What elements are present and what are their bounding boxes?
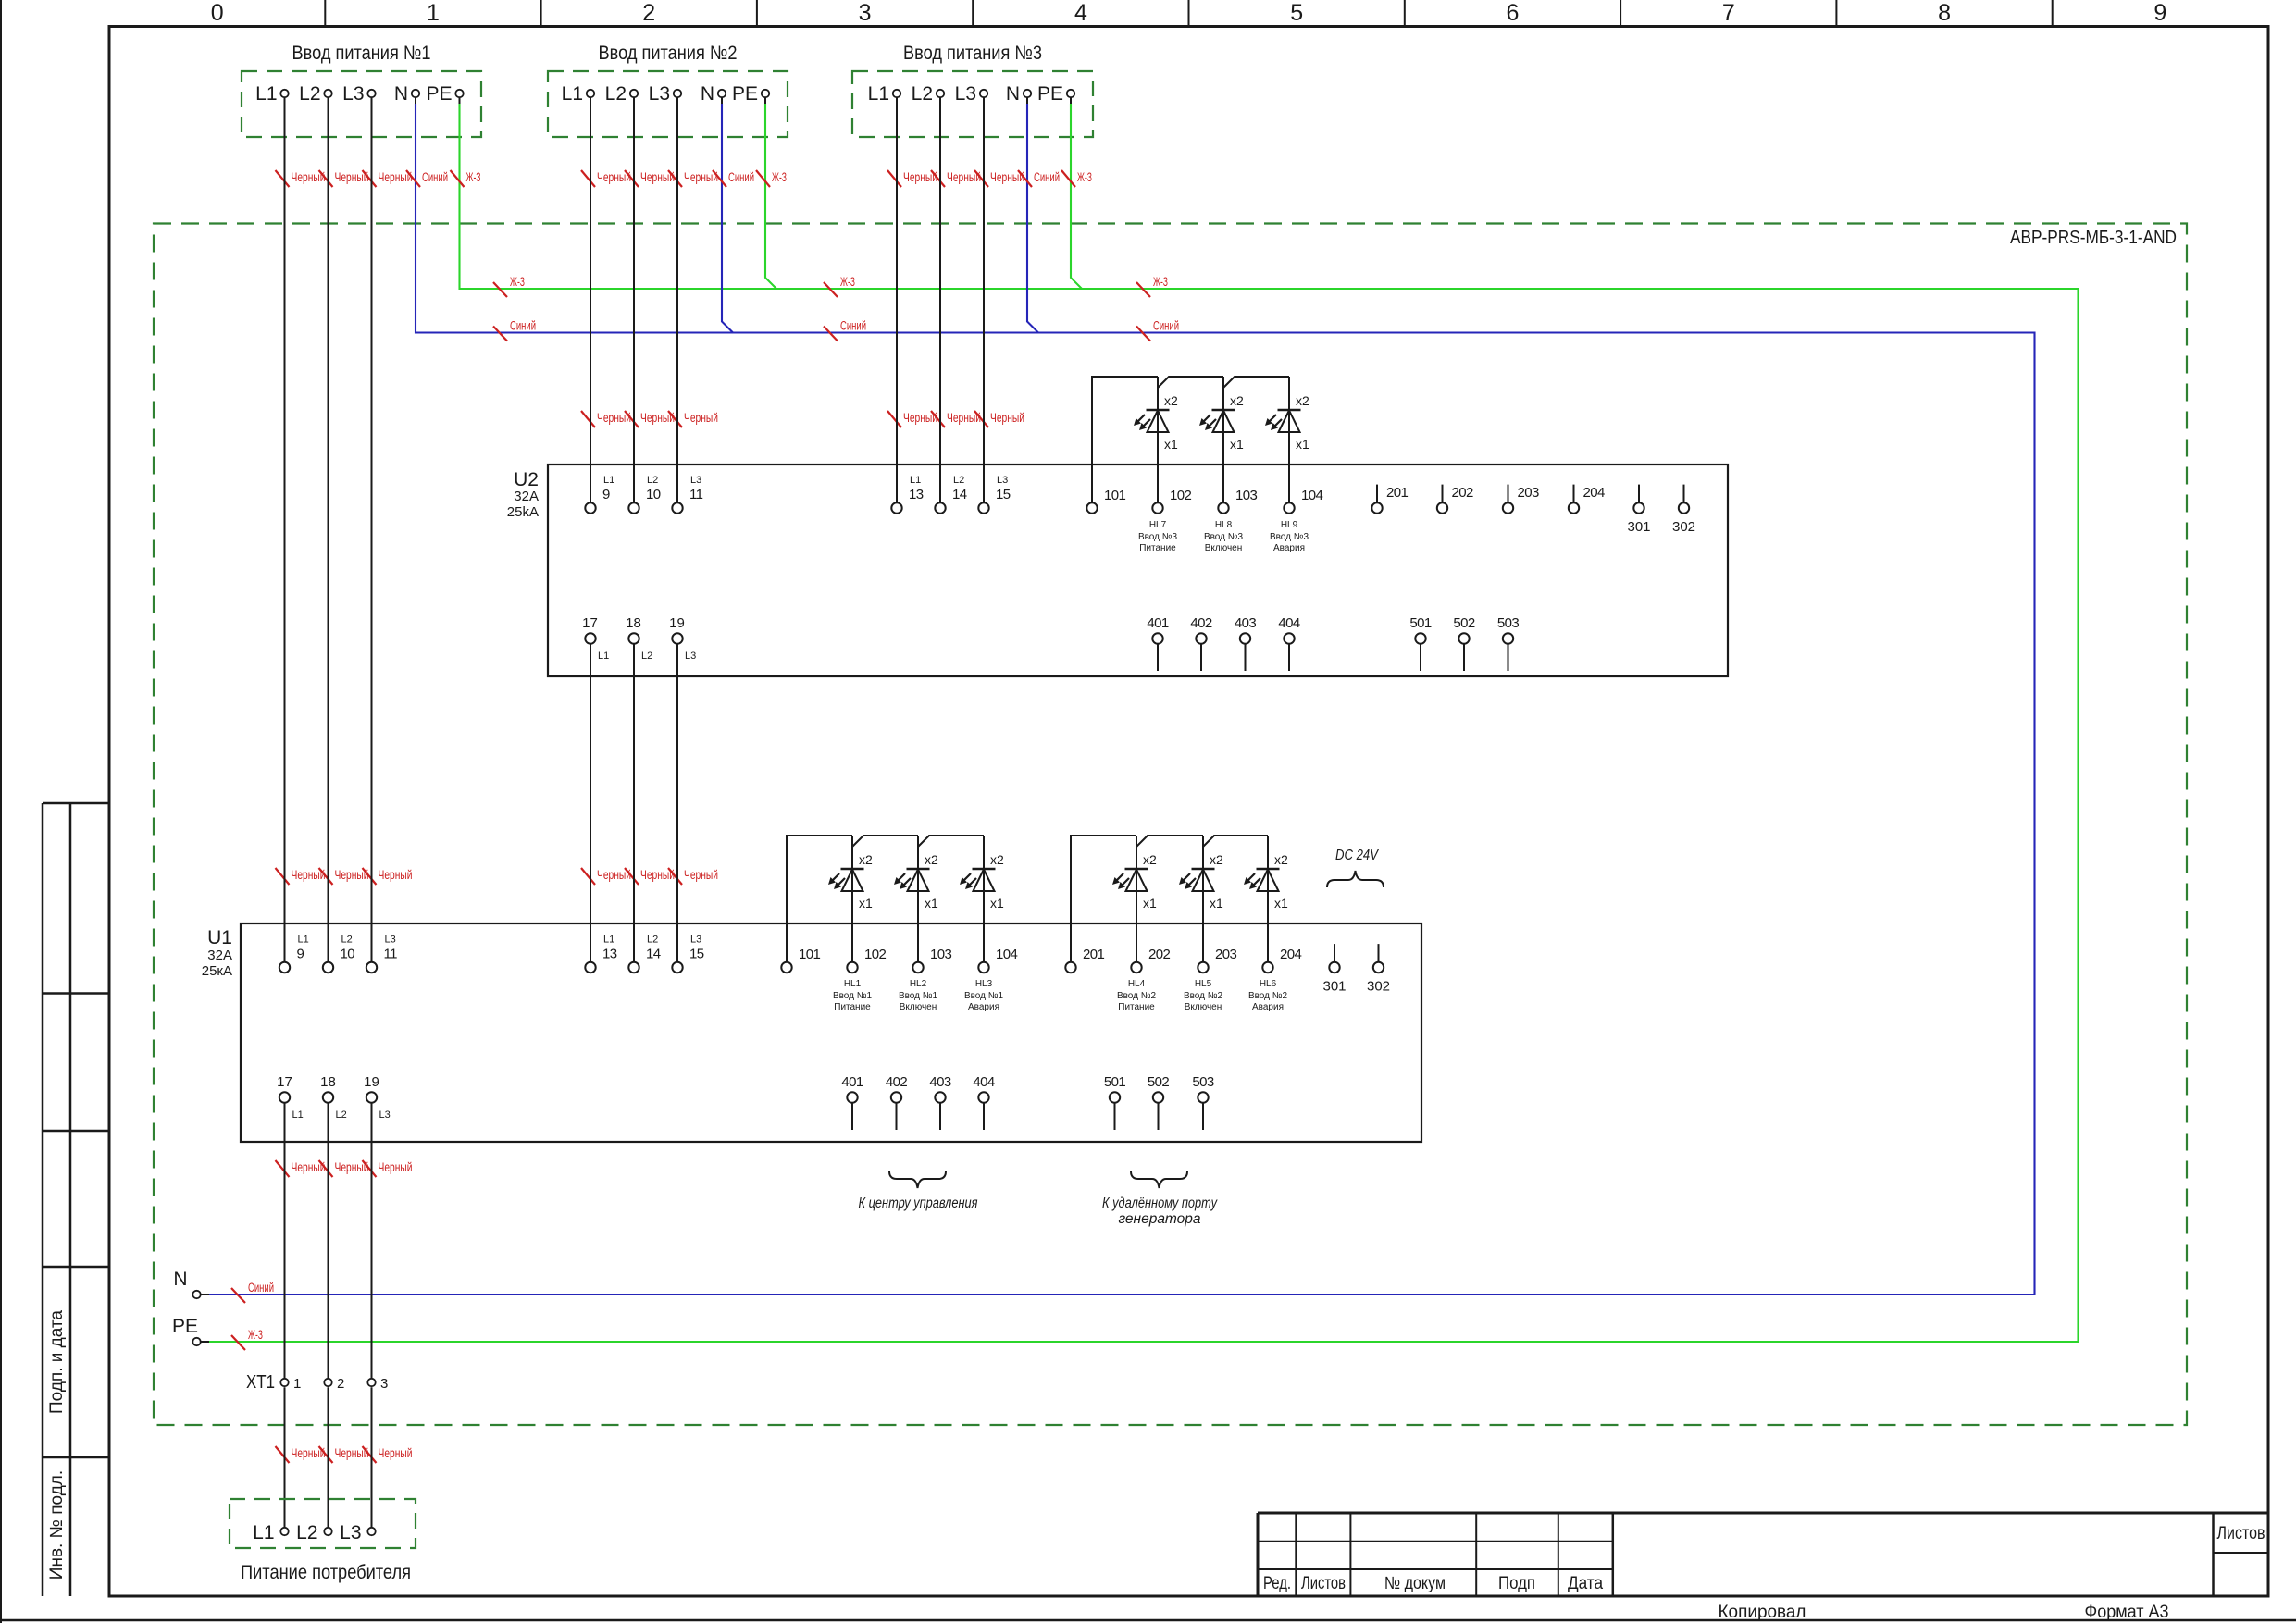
svg-text:9: 9 [602,487,610,502]
svg-text:14: 14 [952,487,967,502]
svg-text:302: 302 [1367,979,1390,995]
svg-text:L3: L3 [690,475,701,486]
brace К удалённому порту [1131,1171,1187,1188]
left margin table [42,803,44,1596]
U2 LED feed riser from terminal 101 [1092,377,1158,502]
svg-text:Синий: Синий [510,319,536,333]
svg-text:Питание: Питание [1118,1002,1155,1012]
svg-text:Ж-З: Ж-З [466,170,481,184]
svg-text:x2: x2 [1296,393,1309,408]
svg-text:13: 13 [602,947,617,962]
svg-text:x1: x1 [1296,437,1309,452]
svg-text:x2: x2 [990,852,1004,867]
LED HL6 [1267,836,1269,962]
svg-text:Подп: Подп [1498,1574,1535,1593]
wire L2 input3 to U2:14 [939,97,941,502]
wire colour labels below U1 [276,1160,290,1177]
svg-text:3: 3 [859,0,872,26]
svg-text:9: 9 [2153,0,2166,26]
svg-text:Ввод №2: Ввод №2 [1248,991,1288,1001]
svg-text:Питание: Питание [1139,543,1176,553]
svg-text:17: 17 [582,615,598,631]
svg-text:N: N [1006,83,1020,105]
svg-text:103: 103 [1235,488,1257,503]
wire L1 input2 to U2:9 [590,97,591,502]
svg-text:L1: L1 [910,475,921,486]
svg-text:x1: x1 [1143,896,1157,911]
U1 LED chain jog 102-103 [852,836,918,847]
ruler column ticks [324,0,326,27]
svg-text:25kA: 25kA [507,504,539,520]
svg-text:103: 103 [930,947,951,962]
PE wire jog from input 3 [1071,104,1082,289]
svg-text:x1: x1 [1210,896,1223,911]
svg-text:Ввод №1: Ввод №1 [833,991,873,1001]
svg-text:1: 1 [293,1376,301,1392]
svg-text:3: 3 [380,1376,388,1392]
wire L3 input3 to U2:15 [983,97,985,502]
svg-text:Ж-З: Ж-З [510,275,525,289]
svg-text:0: 0 [211,0,224,26]
svg-text:9: 9 [297,947,304,962]
svg-text:Ж-З: Ж-З [248,1328,263,1342]
svg-text:401: 401 [841,1074,863,1090]
LED HL7 [1157,377,1159,502]
svg-text:302: 302 [1672,519,1695,535]
svg-text:Питание: Питание [834,1002,871,1012]
svg-text:Авария: Авария [1273,543,1305,553]
svg-text:Ввод питания №2: Ввод питания №2 [599,43,738,64]
svg-text:x2: x2 [1164,393,1178,408]
svg-text:L1: L1 [562,83,583,105]
consumer box Питание потребителя [230,1499,416,1548]
svg-text:503: 503 [1497,615,1519,631]
svg-text:Ввод №1: Ввод №1 [964,991,1004,1001]
svg-text:L3: L3 [385,935,396,946]
svg-text:HL6: HL6 [1260,979,1277,989]
svg-text:18: 18 [320,1074,336,1090]
svg-text:ХТ1: ХТ1 [246,1372,275,1393]
svg-text:201: 201 [1386,485,1408,501]
svg-text:Инв. № подл.: Инв. № подл. [47,1470,67,1580]
svg-text:Авария: Авария [1252,1002,1284,1012]
svg-text:403: 403 [929,1074,950,1090]
svg-text:501: 501 [1104,1074,1125,1090]
svg-text:102: 102 [864,947,886,962]
svg-text:PE: PE [1037,83,1063,105]
svg-text:203: 203 [1215,947,1236,962]
svg-text:Ред.: Ред. [1263,1574,1291,1593]
LED HL9 [1288,377,1290,502]
svg-text:HL2: HL2 [910,979,927,989]
svg-text:L3: L3 [342,83,364,105]
wire XT1:1 to consumer L1 [284,1387,286,1528]
svg-text:L2: L2 [641,650,652,662]
svg-text:301: 301 [1322,979,1346,995]
svg-text:L2: L2 [299,83,320,105]
svg-text:Ввод №3: Ввод №3 [1204,532,1244,542]
svg-text:Черный: Черный [379,1160,413,1174]
svg-text:L3: L3 [997,475,1008,486]
svg-text:19: 19 [364,1074,379,1090]
svg-text:L2: L2 [647,475,658,486]
N net (blue) from inputs to N terminal [209,104,2035,1295]
svg-text:Листов: Листов [2217,1524,2265,1543]
brace К центру управления [889,1171,946,1188]
svg-text:N: N [394,83,408,105]
svg-text:17: 17 [277,1074,292,1090]
LED HL4 [1136,836,1137,962]
XT1 terminal 1 [280,1379,288,1386]
input box Ввод питания №2 [548,71,788,137]
wire L3 input2 to U2:11 [676,97,678,502]
LED HL8 [1222,377,1224,502]
XT1 terminal 3 [367,1379,375,1386]
LED HL1 [851,836,853,962]
Ж-З label at PE terminal [231,1335,245,1350]
LED HL3 [983,836,985,962]
svg-text:Ввод №2: Ввод №2 [1117,991,1157,1001]
svg-text:501: 501 [1409,615,1431,631]
svg-text:x2: x2 [925,852,938,867]
svg-text:x1: x1 [859,896,873,911]
wire colour labels above U1 [276,868,290,885]
svg-text:Ж-З: Ж-З [840,275,855,289]
svg-text:10: 10 [646,487,661,502]
svg-text:L2: L2 [296,1522,317,1543]
svg-text:502: 502 [1148,1074,1169,1090]
svg-text:403: 403 [1235,615,1256,631]
svg-text:Черный: Черный [379,1446,413,1460]
svg-text:18: 18 [626,615,641,631]
U2 terminal 202 [1442,485,1444,503]
U2 terminal 201 [1376,485,1378,503]
Синий label at N terminal [231,1288,245,1303]
svg-text:Синий: Синий [1153,319,1179,333]
page outer border bottom [0,1619,2296,1622]
svg-text:L3: L3 [379,1109,391,1121]
wire L2 input2 to U2:10 [633,97,635,502]
svg-text:404: 404 [1278,615,1299,631]
U2 terminal 204 [1573,485,1575,503]
svg-text:Формат А3: Формат А3 [2085,1603,2169,1622]
svg-text:L2: L2 [912,83,933,105]
LED HL5 [1202,836,1204,962]
svg-text:Ввод питания №3: Ввод питания №3 [903,43,1042,64]
PE wire jog from input 2 [765,104,776,289]
svg-text:N: N [701,83,714,105]
svg-text:Копировал: Копировал [1719,1603,1806,1622]
svg-text:HL8: HL8 [1215,520,1233,530]
wire XT1:3 to consumer L3 [371,1387,373,1528]
svg-text:101: 101 [799,947,820,962]
svg-text:PE: PE [732,83,758,105]
svg-text:x2: x2 [859,852,873,867]
svg-text:Включен: Включен [1205,543,1243,553]
svg-text:25кА: 25кА [202,963,232,979]
svg-text:201: 201 [1083,947,1104,962]
U1 terminal 302 [1378,944,1380,962]
surge protection device U1 box [241,923,1421,1142]
svg-text:Синий: Синий [728,170,754,184]
LED HL2 [917,836,919,962]
svg-text:x2: x2 [1230,393,1244,408]
svg-text:К центру управления: К центру управления [859,1196,978,1211]
svg-text:L1: L1 [292,1109,304,1121]
svg-text:2: 2 [642,0,655,26]
svg-text:8: 8 [1938,0,1951,26]
input box Ввод питания №3 [852,71,1093,137]
svg-text:L3: L3 [340,1522,361,1543]
svg-text:15: 15 [689,947,704,962]
svg-text:x2: x2 [1210,852,1223,867]
wire L3 input1 to U1:11 [371,97,373,962]
svg-text:PE: PE [172,1316,198,1337]
enclosure АВР-PRS-МБ-3-1-AND dashed box [154,224,2187,1426]
wire XT1:2 to consumer L2 [328,1387,329,1528]
svg-text:301: 301 [1627,519,1650,535]
Синий labels on N run [493,327,507,341]
svg-text:401: 401 [1147,615,1168,631]
svg-text:Синий: Синий [840,319,866,333]
U1 LED feed riser from terminal 101 [787,836,852,962]
svg-text:L2: L2 [336,1109,347,1121]
svg-text:503: 503 [1192,1074,1213,1090]
svg-text:x1: x1 [1230,437,1244,452]
svg-text:Черный: Черный [684,868,718,882]
svg-text:Включен: Включен [900,1002,937,1012]
svg-text:HL3: HL3 [975,979,993,989]
wire colour labels above U2 [581,411,595,427]
svg-text:11: 11 [384,947,398,962]
svg-text:Ввод №1: Ввод №1 [899,991,938,1001]
U1 terminal 301 [1334,944,1335,962]
svg-text:HL9: HL9 [1281,520,1298,530]
wire L1 input3 to U2:13 [896,97,898,502]
svg-text:x1: x1 [1274,896,1288,911]
svg-text:АВР-PRS-МБ-3-1-AND: АВР-PRS-МБ-3-1-AND [2010,228,2177,248]
svg-text:L2: L2 [605,83,627,105]
svg-text:HL1: HL1 [844,979,862,989]
U1 LED chain jog 203-204 [1203,836,1268,847]
svg-text:N: N [173,1269,187,1290]
svg-text:L1: L1 [253,1522,274,1543]
wire U2:17 to U1:13 [590,644,591,962]
svg-text:L1: L1 [603,475,614,486]
svg-text:L1: L1 [598,650,609,662]
svg-text:L1: L1 [603,935,614,946]
svg-text:Включен: Включен [1185,1002,1222,1012]
XT1 terminal 2 [324,1379,331,1386]
svg-text:x1: x1 [1164,437,1178,452]
svg-text:203: 203 [1518,485,1539,501]
svg-text:HL5: HL5 [1195,979,1212,989]
U2 terminal 203 [1508,485,1509,503]
svg-text:101: 101 [1104,488,1125,503]
svg-text:L2: L2 [341,935,353,946]
N wire jog from input 2 [722,104,733,333]
svg-text:204: 204 [1583,485,1605,501]
svg-text:1: 1 [427,0,440,26]
wire L1 input1 to U1:9 [284,97,286,962]
svg-text:№ докум: № докум [1384,1574,1446,1593]
U2 terminal 302 [1683,485,1685,503]
N wire jog from input 3 [1027,104,1038,333]
svg-text:402: 402 [1190,615,1211,631]
svg-text:L1: L1 [298,935,309,946]
svg-text:DC 24V: DC 24V [1335,848,1379,863]
wire U2:18 to U1:14 [633,644,635,962]
svg-text:4: 4 [1074,0,1087,26]
DC 24V brace [1327,871,1384,887]
U1 LED chain jog 202-203 [1136,836,1203,847]
svg-text:202: 202 [1148,947,1170,962]
svg-text:Авария: Авария [968,1002,999,1012]
wire U1:17 to XT1:1 [284,1103,286,1379]
svg-text:Черный: Черный [684,411,718,425]
svg-text:Ж-З: Ж-З [1153,275,1168,289]
svg-text:L3: L3 [690,935,701,946]
svg-text:Ввод питания №1: Ввод питания №1 [292,43,431,64]
svg-text:Листов: Листов [1301,1574,1346,1593]
svg-text:14: 14 [646,947,661,962]
svg-text:L2: L2 [647,935,658,946]
title block [1258,1512,2268,1515]
PE net (green) from inputs to PE terminal [209,104,2079,1342]
svg-text:202: 202 [1452,485,1473,501]
svg-text:204: 204 [1280,947,1301,962]
svg-text:L3: L3 [955,83,976,105]
svg-text:502: 502 [1453,615,1474,631]
svg-text:5: 5 [1290,0,1303,26]
svg-text:x2: x2 [1274,852,1288,867]
svg-text:HL4: HL4 [1128,979,1146,989]
svg-text:104: 104 [996,947,1017,962]
U2 terminal 301 [1638,485,1640,503]
page outer border left [0,0,2,1623]
U1 LED chain jog 103-104 [918,836,984,847]
svg-text:32A: 32A [207,948,232,963]
svg-text:Черный: Черный [990,411,1024,425]
svg-text:L2: L2 [953,475,964,486]
svg-text:Питание потребителя: Питание потребителя [241,1562,411,1583]
svg-text:U2: U2 [514,469,539,490]
svg-text:102: 102 [1170,488,1191,503]
svg-text:402: 402 [886,1074,907,1090]
U2 LED chain jog 103-104 [1223,377,1289,388]
svg-text:6: 6 [1507,0,1520,26]
svg-text:13: 13 [909,487,924,502]
svg-text:32A: 32A [514,489,539,504]
svg-text:x1: x1 [990,896,1004,911]
input box Ввод питания №1 [242,71,481,137]
svg-text:L3: L3 [649,83,670,105]
svg-text:Дата: Дата [1568,1574,1603,1593]
svg-text:10: 10 [341,947,355,962]
wire U1:19 to XT1:3 [371,1103,373,1379]
svg-text:Черный: Черный [379,868,413,882]
svg-text:19: 19 [669,615,685,631]
svg-text:Ж-З: Ж-З [772,170,787,184]
svg-text:7: 7 [1722,0,1735,26]
wire colour labels below XT1 [276,1446,290,1463]
svg-text:104: 104 [1301,488,1322,503]
svg-text:Синий: Синий [422,170,448,184]
svg-text:2: 2 [337,1376,344,1392]
wire U1:18 to XT1:2 [328,1103,329,1379]
wire U2:19 to U1:15 [676,644,678,962]
svg-text:генератора: генератора [1118,1211,1200,1227]
surge protection device U2 box [548,465,1728,676]
U1 LED feed riser from terminal 201 [1071,836,1136,962]
svg-text:Синий: Синий [248,1281,274,1295]
svg-text:L1: L1 [255,83,277,105]
svg-text:Синий: Синий [1034,170,1060,184]
svg-text:PE: PE [426,83,452,105]
svg-text:L3: L3 [685,650,696,662]
svg-text:Ж-З: Ж-З [1077,170,1092,184]
svg-text:U1: U1 [207,927,232,948]
svg-text:11: 11 [689,487,703,502]
svg-text:Ввод №2: Ввод №2 [1184,991,1223,1001]
svg-text:К удалённому порту: К удалённому порту [1102,1196,1218,1211]
svg-text:15: 15 [996,487,1011,502]
svg-text:L1: L1 [868,83,889,105]
wire colour labels below input boxes [276,170,290,187]
svg-text:Ввод №3: Ввод №3 [1138,532,1178,542]
U2 LED chain jog 102-103 [1158,377,1223,388]
svg-text:HL7: HL7 [1149,520,1167,530]
svg-text:404: 404 [973,1074,994,1090]
svg-text:x1: x1 [925,896,938,911]
svg-text:Ввод №3: Ввод №3 [1270,532,1309,542]
Ж-З labels on PE run [493,282,507,297]
svg-text:Подп. и дата: Подп. и дата [47,1310,67,1414]
wire L2 input1 to U1:10 [328,97,329,962]
svg-text:x2: x2 [1143,852,1157,867]
